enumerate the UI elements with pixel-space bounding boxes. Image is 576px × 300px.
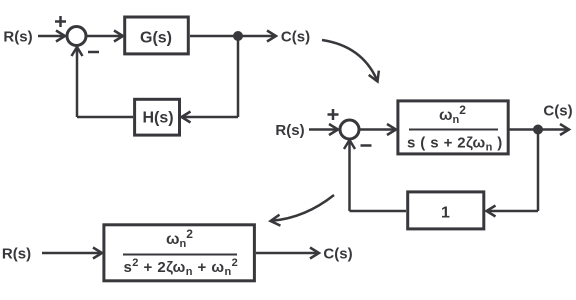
svg-text:C(s): C(s) (281, 29, 310, 46)
svg-text:1: 1 (441, 205, 450, 222)
wire N2 to output arrow (diagram 2) (538, 124, 569, 135)
block T fraction bar (123, 254, 237, 256)
wire feedback into block U (unity) (487, 206, 539, 217)
block P2 fraction bar (409, 129, 498, 131)
svg-text:C(s): C(s) (323, 246, 352, 263)
wire G to node N1 (190, 35, 238, 38)
wire T to output arrow (diagram 3) (256, 248, 319, 259)
wire S2 to block P2 (359, 124, 396, 135)
svg-text:G(s): G(s) (140, 30, 172, 47)
minus sign at S2 (361, 144, 372, 147)
wire feedback riser up to S1 (72, 47, 83, 117)
summing junction S1 (67, 27, 86, 46)
svg-text:R(s): R(s) (275, 122, 304, 139)
block H1 box (135, 99, 180, 135)
wire P2 to node N2 (510, 128, 539, 131)
wire R(s) to summing junction 1 (38, 31, 65, 42)
block U box (unity feedback 1) (408, 192, 484, 229)
wire N1 down (feedback drop) (237, 36, 240, 117)
svg-text:R(s): R(s) (2, 246, 31, 263)
svg-text:R(s): R(s) (3, 29, 32, 46)
plus sign at S1 (55, 16, 66, 27)
block P2 box (plant wn^2 / s(s+2 zeta wn)) (398, 101, 508, 154)
wire S1 to block G (86, 31, 123, 42)
plus sign at S2 (328, 109, 339, 120)
node N2 junction dot (533, 125, 543, 135)
svg-text:s2 + 2ζωn + ωn2: s2 + 2ζωn + ωn2 (124, 257, 239, 278)
block G1 box (125, 17, 189, 54)
wire R(s) to summing junction 2 (309, 124, 338, 135)
wire H to feedback riser (77, 116, 133, 119)
node N1 junction dot (233, 31, 243, 41)
wire U to feedback riser (diagram 2) (350, 210, 407, 213)
wire N2 down (feedback drop diagram 2) (537, 130, 540, 212)
wire feedback riser up to S2 (344, 140, 355, 211)
wire R(s) to block T (42, 248, 102, 259)
block T box (closed-loop transfer function) (104, 225, 255, 281)
wire feedback into block H (182, 112, 239, 123)
minus sign at S1 (88, 51, 99, 54)
summing junction S2 (340, 120, 359, 139)
svg-text:H(s): H(s) (142, 110, 173, 127)
svg-text:C(s): C(s) (543, 103, 572, 120)
wire N1 to C(s) output arrow (238, 31, 276, 42)
